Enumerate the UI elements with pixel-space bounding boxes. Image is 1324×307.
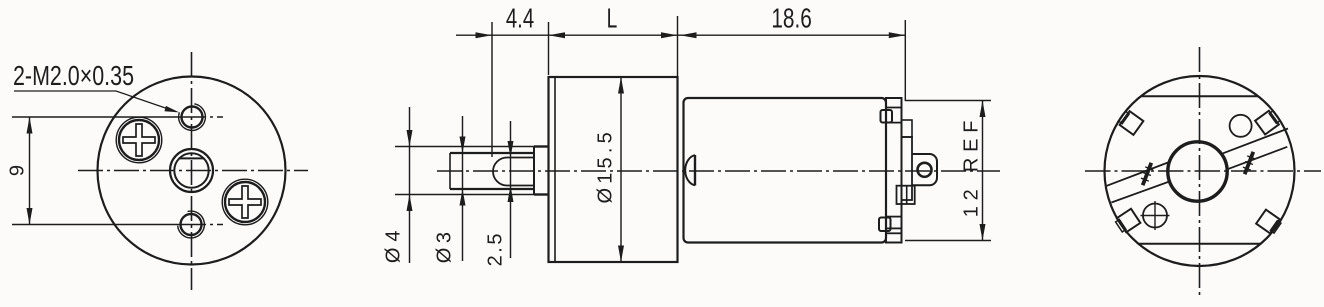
end cap bottom band line 1 xyxy=(886,216,902,218)
right view vertical centerline xyxy=(1199,47,1201,297)
dim Ø15.5 top arrow xyxy=(618,77,624,94)
gearbox front plate inner line xyxy=(554,77,556,262)
dim 9 top arrow xyxy=(27,117,33,134)
svg-text:Ø3: Ø3 xyxy=(434,228,456,264)
svg-text:Ø4: Ø4 xyxy=(383,224,405,263)
top crimp clip xyxy=(881,110,893,123)
dim Ø3 line xyxy=(462,116,464,261)
end cap rear view - outer circle xyxy=(1105,76,1295,266)
brush card band upper-left line xyxy=(1107,162,1171,186)
brush card band lower-left line xyxy=(1111,182,1169,203)
lower-right phillips screw xyxy=(222,179,268,225)
right view horizontal centerline xyxy=(1085,170,1321,172)
svg-text:L: L xyxy=(607,4,618,34)
svg-text:2-M2.0×0.35: 2-M2.0×0.35 xyxy=(13,62,134,92)
ext line at cap end xyxy=(904,20,906,101)
gearbox front view - outer body circle xyxy=(98,77,286,265)
bottom hole horizontal centerline xyxy=(160,224,206,226)
top dimension line xyxy=(456,34,905,36)
dim 2.5 line xyxy=(510,121,512,258)
shaft flat (D-cut) outline xyxy=(493,158,534,186)
dim 2.5 upper arrow xyxy=(508,141,514,158)
svg-text:12 REF: 12 REF xyxy=(961,115,983,218)
end cap bottom band line 3 xyxy=(886,232,902,234)
top M2 tapped hole - thread arc xyxy=(179,104,206,131)
side view horizontal centerline xyxy=(437,170,1000,172)
dim 9 bottom arrow xyxy=(27,208,33,225)
dim Ø4 line xyxy=(409,107,411,263)
12 REF bottom arrow xyxy=(980,224,986,241)
terminal lug xyxy=(912,154,937,185)
12 REF bottom extension line xyxy=(905,240,991,242)
brush card band lower-right line xyxy=(1228,147,1288,169)
dim 4.4 right / L left arrow xyxy=(549,32,566,38)
ext line at gearbox front xyxy=(548,22,550,75)
top M2 tapped hole - minor dia xyxy=(182,107,203,128)
Ø4 top extension line xyxy=(395,146,534,148)
Ø4 bottom extension line xyxy=(395,194,534,196)
Ø4 collar top line xyxy=(534,145,549,147)
bottom M2 tapped hole - thread arc xyxy=(178,211,205,238)
dim Ø15.5 bottom arrow xyxy=(618,246,624,263)
gearbox body xyxy=(549,77,678,262)
svg-text:18.6: 18.6 xyxy=(771,4,812,34)
central bushing boss circle xyxy=(1168,142,1227,201)
motor front bushing flat xyxy=(694,155,696,186)
right motor terminal (end-on) xyxy=(1241,150,1257,175)
dim Ø4 upper arrow xyxy=(407,130,413,147)
upper-left rim tab xyxy=(1117,109,1143,135)
12 REF top arrow xyxy=(980,101,986,118)
output shaft collar circle (Ø4) xyxy=(170,149,213,192)
lower-right rim tab xyxy=(1256,210,1282,235)
motor front bushing dome xyxy=(685,155,695,185)
Ø4 collar face line xyxy=(533,147,535,195)
dim L right arrow xyxy=(661,32,678,38)
bottom M2 tapped hole - minor dia xyxy=(181,214,202,235)
dim 9 dimension line xyxy=(29,117,31,225)
top rim flat chord xyxy=(1141,95,1258,97)
dim 9 bottom extension line xyxy=(12,224,160,226)
Ø3 shaft top line xyxy=(450,152,534,154)
dim Ø3 upper arrow xyxy=(460,137,466,154)
end cap top band line 1 xyxy=(886,107,902,109)
dim Ø15.5 line xyxy=(620,77,622,262)
svg-text:9: 9 xyxy=(6,165,29,176)
bottom rim flat chord xyxy=(1138,243,1260,245)
terminal hole xyxy=(918,163,932,177)
upper-left phillips screw xyxy=(116,117,162,163)
svg-text:Ø15.5: Ø15.5 xyxy=(595,128,617,203)
end cap top band line 2 xyxy=(886,122,902,124)
left view horizontal centerline xyxy=(78,170,308,172)
dim Ø4 lower arrow xyxy=(407,195,413,212)
svg-text:2.5: 2.5 xyxy=(485,231,507,266)
output shaft circle (Ø3 D-shaft) xyxy=(174,153,208,187)
bottom crimp clip xyxy=(879,218,891,232)
end cap body xyxy=(886,98,902,243)
Ø4 collar bottom line xyxy=(534,193,549,195)
12 REF dim line xyxy=(982,101,984,241)
dim 18.6 right arrow xyxy=(889,32,906,38)
D-shaft flat chord xyxy=(179,157,204,159)
leader arrowhead xyxy=(165,106,180,113)
Ø3 shaft bottom line xyxy=(450,188,534,190)
ext line at flat start xyxy=(491,22,493,157)
cap vent hole (plain circle) xyxy=(1230,115,1252,137)
dim 18.6 left arrow xyxy=(680,32,697,38)
dim 2.5 lower arrow xyxy=(508,186,514,203)
ext line at gearbox rear xyxy=(677,16,679,77)
brush plate upper tab xyxy=(902,120,913,137)
end cap bottom band line 2 xyxy=(886,227,902,229)
brush card band upper-right line xyxy=(1223,129,1288,154)
dim Ø3 lower arrow xyxy=(460,189,466,206)
motor can body xyxy=(684,98,887,243)
brush plate xyxy=(902,137,913,200)
dim 4.4 left arrow xyxy=(476,32,493,38)
cap vent hole with cross xyxy=(1143,204,1167,228)
terminal lower tab xyxy=(897,186,915,204)
leader line xyxy=(14,91,176,112)
dim 9 top extension line xyxy=(12,116,160,118)
left view vertical centerline xyxy=(191,52,193,290)
shaft tip end face xyxy=(449,153,451,189)
upper-right rim tab xyxy=(1255,109,1281,135)
12 REF top extension line xyxy=(905,100,991,102)
svg-text:4.4: 4.4 xyxy=(506,4,534,35)
motor can / end cap seam xyxy=(885,98,887,243)
top hole horizontal centerline xyxy=(160,116,206,118)
left motor terminal (end-on) xyxy=(1139,161,1155,186)
lower-left rim tab xyxy=(1114,209,1140,234)
terminal lower tab inner line xyxy=(906,186,908,204)
